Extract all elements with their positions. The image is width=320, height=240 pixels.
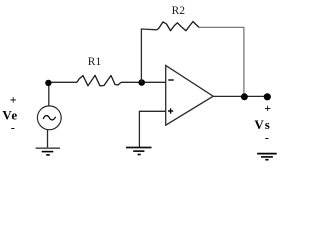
ground bbox=[126, 148, 152, 155]
svg-text:-: - bbox=[265, 131, 269, 145]
op-amp U1 bbox=[166, 65, 214, 125]
ground (output reference) bbox=[257, 154, 277, 160]
source V1 (Ve) bbox=[37, 106, 61, 130]
label - (input) bbox=[11, 121, 15, 135]
wire bbox=[48, 82, 50, 106]
node N4 (output terminal) bbox=[264, 93, 271, 100]
wire bbox=[47, 130, 49, 148]
wire bbox=[121, 81, 166, 83]
ground bbox=[36, 148, 60, 155]
svg-text:-: - bbox=[11, 121, 15, 135]
wire bbox=[139, 111, 165, 147]
label - (output) bbox=[265, 131, 269, 145]
resistor R2 bbox=[157, 22, 199, 31]
node N2 bbox=[138, 79, 145, 86]
label R1 bbox=[88, 56, 102, 68]
resistor R1 bbox=[77, 75, 121, 86]
node N1 bbox=[45, 80, 51, 86]
svg-text:+: + bbox=[10, 92, 17, 106]
label Ve bbox=[2, 108, 18, 123]
wire bbox=[141, 29, 157, 82]
label + (input) bbox=[10, 92, 17, 106]
label R2 bbox=[172, 5, 186, 17]
wire bbox=[199, 27, 244, 93]
svg-text:+: + bbox=[264, 101, 271, 115]
wire bbox=[213, 95, 267, 97]
label + (output) bbox=[264, 101, 271, 115]
wire bbox=[49, 81, 77, 83]
node N3 bbox=[241, 93, 248, 100]
svg-text:R2: R2 bbox=[172, 5, 186, 17]
label Vs bbox=[254, 117, 270, 132]
svg-text:R1: R1 bbox=[88, 56, 102, 68]
